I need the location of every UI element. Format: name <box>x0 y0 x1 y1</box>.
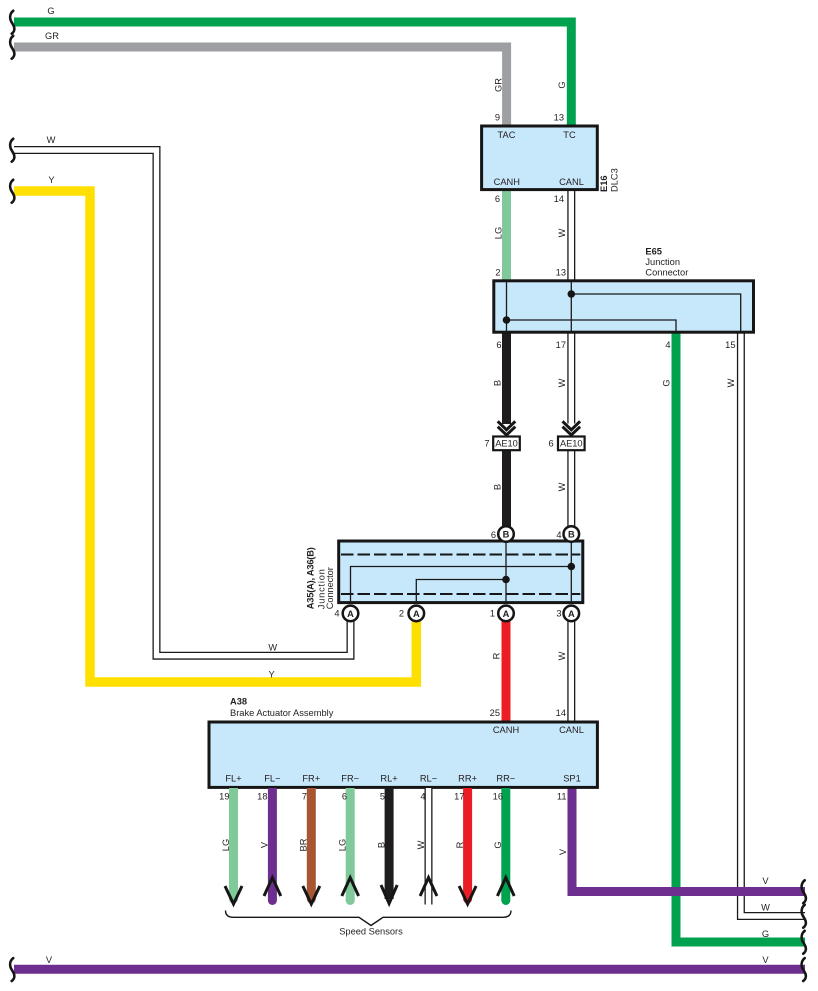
svg-text:W: W <box>761 903 770 913</box>
svg-text:V: V <box>46 955 53 965</box>
svg-text:A: A <box>568 609 575 619</box>
svg-text:14: 14 <box>554 194 564 204</box>
svg-text:9: 9 <box>495 113 500 123</box>
svg-text:W: W <box>726 378 736 387</box>
svg-text:6: 6 <box>342 792 347 802</box>
svg-text:GR: GR <box>45 31 59 41</box>
svg-text:G: G <box>493 841 503 848</box>
svg-text:5: 5 <box>380 792 385 802</box>
svg-text:RL−: RL− <box>420 774 437 784</box>
svg-text:E16: E16 <box>599 175 609 192</box>
svg-text:Junction: Junction <box>645 257 680 267</box>
svg-text:4: 4 <box>556 530 561 540</box>
svg-text:B: B <box>493 484 503 490</box>
svg-text:Connector: Connector <box>325 567 335 609</box>
svg-text:17: 17 <box>556 340 566 350</box>
svg-text:17: 17 <box>454 792 464 802</box>
svg-text:W: W <box>557 378 567 387</box>
svg-text:W: W <box>47 135 56 145</box>
svg-text:LG: LG <box>338 839 348 851</box>
svg-text:18: 18 <box>257 792 267 802</box>
svg-text:G: G <box>762 929 769 939</box>
svg-text:6: 6 <box>495 194 500 204</box>
svg-text:15: 15 <box>725 340 735 350</box>
svg-text:RR−: RR− <box>496 774 515 784</box>
svg-text:R: R <box>455 841 465 848</box>
svg-text:7: 7 <box>484 439 489 449</box>
svg-text:V: V <box>260 841 270 848</box>
svg-text:G: G <box>662 379 672 386</box>
svg-text:FR+: FR+ <box>302 774 320 784</box>
svg-text:TC: TC <box>563 130 576 140</box>
svg-text:V: V <box>762 955 769 965</box>
svg-text:14: 14 <box>556 708 566 718</box>
svg-text:Brake Actuator Assembly: Brake Actuator Assembly <box>230 708 334 718</box>
svg-text:6: 6 <box>549 439 554 449</box>
svg-text:E65: E65 <box>645 247 662 257</box>
svg-text:W: W <box>416 840 426 849</box>
svg-text:AE10: AE10 <box>495 438 518 448</box>
svg-text:FL−: FL− <box>264 774 280 784</box>
svg-text:AE10: AE10 <box>560 438 583 448</box>
svg-text:16: 16 <box>493 792 503 802</box>
svg-text:Y: Y <box>268 670 274 680</box>
svg-text:BR: BR <box>299 838 309 851</box>
svg-text:A38: A38 <box>230 697 247 707</box>
svg-text:W: W <box>268 643 277 653</box>
svg-text:FL+: FL+ <box>225 774 241 784</box>
svg-text:25: 25 <box>490 708 500 718</box>
svg-text:7: 7 <box>302 792 307 802</box>
svg-text:4: 4 <box>420 792 425 802</box>
svg-text:A: A <box>347 609 354 619</box>
svg-text:W: W <box>557 482 567 491</box>
svg-text:2: 2 <box>495 268 500 278</box>
svg-text:B: B <box>568 529 575 539</box>
svg-text:CANL: CANL <box>559 725 584 735</box>
svg-text:B: B <box>377 842 387 848</box>
svg-text:13: 13 <box>556 268 566 278</box>
svg-text:11: 11 <box>557 792 567 802</box>
svg-text:Connector: Connector <box>645 268 688 278</box>
svg-text:FR−: FR− <box>341 774 359 784</box>
svg-text:GR: GR <box>494 78 504 92</box>
svg-text:W: W <box>557 651 567 660</box>
svg-text:CANL: CANL <box>559 177 584 187</box>
svg-text:B: B <box>503 529 510 539</box>
svg-text:G: G <box>557 81 567 88</box>
svg-text:V: V <box>558 848 568 855</box>
svg-text:R: R <box>492 652 502 659</box>
svg-text:4: 4 <box>334 609 339 619</box>
svg-text:CANH: CANH <box>493 725 519 735</box>
svg-text:CANH: CANH <box>494 177 520 187</box>
svg-text:Speed Sensors: Speed Sensors <box>339 927 403 937</box>
svg-text:Y: Y <box>48 175 54 185</box>
svg-text:1: 1 <box>490 609 495 619</box>
svg-text:6: 6 <box>496 340 501 350</box>
svg-text:2: 2 <box>399 609 404 619</box>
svg-text:19: 19 <box>219 792 229 802</box>
svg-text:DLC3: DLC3 <box>610 168 620 192</box>
svg-text:LG: LG <box>494 227 504 239</box>
svg-text:A: A <box>413 609 420 619</box>
svg-text:3: 3 <box>556 609 561 619</box>
svg-text:6: 6 <box>491 530 496 540</box>
svg-text:B: B <box>493 380 503 386</box>
svg-text:V: V <box>762 876 769 886</box>
svg-text:13: 13 <box>554 113 564 123</box>
svg-text:W: W <box>557 228 567 237</box>
svg-text:RR+: RR+ <box>458 774 477 784</box>
svg-text:4: 4 <box>665 340 670 350</box>
svg-text:LG: LG <box>221 839 231 851</box>
svg-text:A: A <box>503 609 510 619</box>
svg-text:G: G <box>47 6 54 16</box>
svg-text:RL+: RL+ <box>380 774 397 784</box>
svg-text:TAC: TAC <box>498 130 516 140</box>
svg-text:SP1: SP1 <box>563 774 581 784</box>
svg-text:A35(A), A36(B): A35(A), A36(B) <box>306 547 316 609</box>
